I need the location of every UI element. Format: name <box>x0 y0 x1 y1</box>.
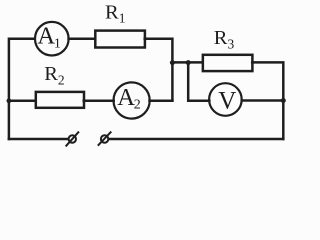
svg-text:V: V <box>218 87 236 114</box>
wire A1 to R1 <box>69 37 95 40</box>
junction dot right-middle <box>281 98 286 103</box>
resistor R1 <box>95 31 145 48</box>
wire R1 right to vertical <box>145 39 173 101</box>
wire junction down to V row <box>188 62 209 100</box>
junction dot V branch <box>186 60 191 65</box>
wire junction to R3 <box>172 61 202 64</box>
wire top-left corner to A1 <box>9 39 34 139</box>
resistor R3 <box>203 55 253 71</box>
wire middle-left to R2 <box>9 100 36 103</box>
voltmeter V <box>209 83 242 116</box>
wire bottom-left to switch <box>9 138 68 141</box>
wire A2 to junction vertical <box>150 100 173 103</box>
junction dot top branch <box>170 60 175 65</box>
ammeter A1 <box>35 22 69 56</box>
wire switch to bottom-right <box>109 138 283 141</box>
junction dot left-middle <box>6 98 11 103</box>
resistor R2 <box>36 92 84 108</box>
ammeter A2 <box>114 82 150 118</box>
wire R2 to A2 <box>84 100 114 103</box>
switch terminal right <box>99 132 111 145</box>
switch terminal left <box>66 132 78 145</box>
wire V to right vertical <box>242 99 284 102</box>
wire R3 right to right vertical <box>252 62 283 139</box>
